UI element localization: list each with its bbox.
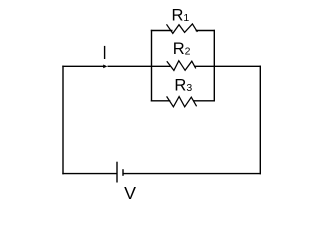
wire top-left segment: [63, 65, 103, 67]
svg-text:V: V: [124, 183, 136, 203]
resistor R3: [167, 96, 197, 106]
resistor R2: [167, 61, 196, 71]
wire left vertical: [62, 66, 64, 173]
wire box top-right (R1 branch right): [196, 30, 214, 32]
wire box bottom-right (R3 branch right): [194, 100, 215, 102]
svg-text:R2: R2: [173, 40, 191, 58]
battery plate long: [116, 162, 118, 183]
wire box bottom-left (R3 branch left): [152, 100, 170, 102]
wire box top-left (R1 branch left): [152, 30, 172, 32]
label I (current): [104, 46, 106, 59]
wire box left vertical: [151, 31, 153, 101]
wire box right vertical: [213, 31, 215, 101]
wire R2 right segment to loop corner: [195, 65, 260, 67]
wire top segment after arrow into box: [108, 65, 169, 67]
current arrowhead: [103, 65, 107, 69]
svg-text:R3: R3: [174, 77, 192, 95]
svg-text:R1: R1: [172, 7, 190, 25]
wire right vertical: [259, 66, 261, 173]
resistor R1: [167, 24, 198, 34]
wire bottom left segment: [63, 173, 116, 175]
wire bottom right segment: [124, 173, 261, 175]
battery plate short: [122, 169, 124, 176]
